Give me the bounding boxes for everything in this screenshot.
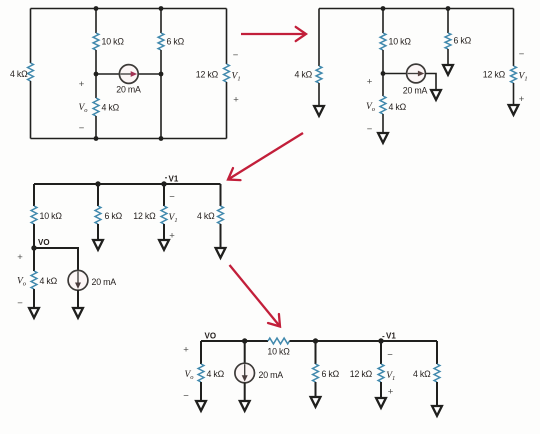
svg-text:4 kΩ: 4 kΩ: [294, 70, 312, 80]
wire Vo 4k lower circuit 2: [382, 114, 384, 133]
svg-text:6 kΩ: 6 kΩ: [322, 369, 340, 379]
label V1 circuit 1: [232, 72, 241, 83]
label minus of V1 circuit 3: [169, 192, 175, 203]
wire 6k branch lower circuit 2: [447, 49, 449, 65]
wire 4k right lower circuit 3: [220, 224, 222, 248]
node dot mid circuit 2: [381, 71, 386, 76]
wire 12k branch lower circuit 2: [513, 83, 515, 105]
wire 10k branch lower circuit 2: [382, 50, 384, 74]
ground of 6k circuit 3: [93, 240, 103, 250]
label 12 kohm circuit 4: [350, 369, 373, 379]
node dot 12k circuit 3: [161, 181, 166, 186]
wire 4k left upper circuit 4: [200, 341, 202, 364]
label plus of Vo circuit 2: [367, 77, 373, 88]
ground of 4k circuit 3: [29, 308, 39, 318]
label V1 node circuit 4: [386, 332, 396, 341]
resistor R 4k circuit 3: [31, 271, 37, 289]
red arrow circuit2 to circuit3: [228, 133, 303, 180]
label V1 circuit 3: [169, 213, 178, 224]
svg-text:10 kΩ: 10 kΩ: [389, 37, 412, 47]
label 20 mA circuit 2: [403, 86, 428, 96]
wire 12k branch upper circuit 2: [513, 9, 515, 67]
label minus of Vo circuit 3: [17, 298, 23, 309]
label 4 kohm mid circuit 1: [102, 103, 120, 113]
node dot bottom left circuit 1: [94, 136, 99, 141]
svg-text:20 mA: 20 mA: [92, 277, 117, 287]
ground of 12k circuit 4: [376, 398, 386, 408]
tick before V1 label circuit 4: [382, 336, 384, 338]
node dot top 6k circuit 2: [446, 6, 451, 11]
wire 6k branch upper circuit 2: [447, 9, 449, 34]
wire 6k lower circuit 3: [97, 224, 99, 240]
wire left side of circuit 1 upper: [30, 9, 32, 64]
resistor R 4k right circuit 4: [434, 364, 440, 382]
node dot top 10k circuit 2: [381, 6, 386, 11]
ground of 6k circuit 2: [443, 65, 453, 75]
ground of 12k circuit 2: [509, 105, 519, 115]
svg-text:−: −: [519, 49, 525, 60]
label 10 kohm circuit 3: [40, 211, 63, 221]
resistor R 10k horizontal circuit 4: [268, 338, 290, 344]
label 4 kohm right circuit 4: [413, 369, 431, 379]
node dot top of 10k circuit 1: [94, 6, 99, 11]
ground of 4k left circuit 4: [196, 401, 206, 411]
label 10 kohm circuit 4: [267, 347, 290, 357]
wire 4k left lower circuit 4: [200, 382, 202, 401]
label 6 kohm circuit 3: [105, 211, 123, 221]
svg-text:20 mA: 20 mA: [259, 370, 284, 380]
wire bottom of circuit 1: [31, 138, 227, 140]
wire branch 4k mid lower circuit 1: [95, 116, 97, 139]
wire branch 10k upper circuit 1: [95, 9, 97, 34]
svg-text:4 kΩ: 4 kΩ: [207, 369, 225, 379]
red arrow circuit1 to circuit2: [241, 27, 306, 41]
label Vo circuit 4: [184, 370, 194, 381]
label plus of V1 circuit 1: [233, 95, 239, 106]
svg-text:−: −: [169, 192, 175, 203]
resistor R 6k circuit 3: [95, 206, 101, 224]
svg-text:20 mA: 20 mA: [403, 86, 428, 96]
svg-text:12 kΩ: 12 kΩ: [196, 70, 219, 80]
label minus of Vo circuit 4: [183, 391, 189, 402]
wire Vo 4k lower circuit 3: [33, 289, 35, 308]
label 4 kohm right circuit 3: [197, 211, 215, 221]
svg-text:−: −: [79, 123, 85, 134]
label V1 circuit 4: [386, 371, 395, 382]
svg-text:+: +: [367, 77, 373, 88]
wire to current source circuit 2: [383, 73, 407, 75]
svg-text:−: −: [233, 50, 239, 61]
label 12 kohm circuit 2: [483, 70, 506, 80]
svg-text:4 kΩ: 4 kΩ: [10, 69, 28, 79]
ground of 4k circuit 2: [314, 106, 324, 116]
label VO circuit 3: [38, 238, 50, 247]
label 20 mA circuit 1: [116, 85, 141, 95]
label minus of V1 circuit 2: [519, 49, 525, 60]
node dot bottom right circuit 1: [159, 136, 164, 141]
wire 10k upper circuit 3: [33, 184, 35, 206]
node dot 12k circuit 4: [378, 338, 383, 343]
label VO circuit 4: [205, 332, 217, 341]
wire left side of circuit 1 lower: [30, 81, 32, 139]
svg-text:−: −: [387, 350, 393, 361]
red arrow circuit3 to circuit4: [230, 265, 281, 327]
label plus of V1 circuit 2: [519, 94, 525, 105]
ground of Vo branch circuit 2: [378, 133, 388, 143]
resistor R 12k circuit 3: [161, 206, 167, 224]
label 4 kohm circuit 2: [294, 70, 312, 80]
svg-text:4 kΩ: 4 kΩ: [413, 369, 431, 379]
svg-text:−: −: [367, 124, 373, 135]
wire Vo 4k upper circuit 2: [382, 74, 384, 97]
resistor R 10k circuit 2: [380, 33, 386, 50]
label plus of Vo circuit 4: [183, 345, 189, 356]
label 6 kohm circuit 1: [167, 37, 185, 47]
svg-text:6 kΩ: 6 kΩ: [454, 36, 472, 46]
label Vo circuit 1: [78, 103, 88, 114]
resistor R 4k right circuit 3: [218, 206, 224, 224]
label 4 kohm mid circuit 2: [389, 102, 407, 112]
wire source lower circuit 4: [244, 383, 246, 401]
node dot source circuit 4: [242, 338, 247, 343]
wire branch 10k lower circuit 1: [95, 50, 97, 74]
resistor R 6k circuit 1: [158, 33, 164, 50]
current source 20mA circuit 4: [235, 363, 255, 383]
label 20 mA circuit 4: [259, 370, 284, 380]
svg-text:20 mA: 20 mA: [116, 85, 141, 95]
wire node VO to source circuit 3: [34, 248, 78, 271]
svg-text:VO: VO: [205, 332, 217, 341]
wire 10k branch upper circuit 2: [382, 9, 384, 34]
ground of 6k circuit 4: [311, 397, 321, 407]
wire top of circuit 3: [34, 183, 221, 185]
wire top left segment circuit 4: [201, 340, 268, 342]
resistor R 4k circuit 2: [316, 66, 322, 83]
wire current source to corner circuit 2: [425, 74, 436, 91]
svg-text:12 kΩ: 12 kΩ: [350, 369, 373, 379]
wire branch 6k lower circuit 1: [160, 50, 162, 139]
label plus of Vo circuit 3: [17, 252, 23, 263]
ground of source circuit 4: [240, 401, 250, 411]
node dot 6k circuit 4: [313, 338, 318, 343]
svg-text:VO: VO: [38, 238, 50, 247]
node dot 6k circuit 3: [95, 181, 100, 186]
svg-text:10 kΩ: 10 kΩ: [102, 37, 125, 47]
resistor R 12k circuit 4: [378, 364, 384, 382]
wire 4k right upper circuit 4: [436, 341, 438, 364]
resistor R 12k of circuit 1: [224, 64, 230, 82]
ground of source circuit 3: [73, 308, 83, 318]
label plus of V1 circuit 4: [388, 387, 394, 398]
wire 12k lower circuit 4: [380, 382, 382, 398]
wire source upper circuit 4: [244, 341, 246, 363]
node dot top of 6k circuit 1: [159, 6, 164, 11]
ground of current source circuit 2: [431, 90, 441, 100]
ground of 4k right circuit 3: [216, 248, 226, 258]
label minus of Vo circuit 1: [79, 123, 85, 134]
wire branch 6k upper circuit 1: [160, 9, 162, 34]
node dot mid right circuit 1: [159, 72, 164, 77]
label 12 kohm circuit 1: [196, 70, 219, 80]
node dot mid left circuit 1: [94, 72, 99, 77]
svg-text:12 kΩ: 12 kΩ: [483, 70, 506, 80]
resistor R 4k left of circuit 1: [28, 63, 34, 81]
svg-text:V1: V1: [169, 175, 179, 184]
svg-text:+: +: [519, 94, 525, 105]
label minus of V1 circuit 4: [387, 350, 393, 361]
label minus of Vo circuit 2: [367, 124, 373, 135]
current source 20mA circuit 1: [119, 65, 138, 84]
ground of 4k right circuit 4: [432, 406, 442, 416]
label Vo circuit 3: [17, 277, 27, 288]
resistor R 12k circuit 2: [511, 66, 517, 83]
label 6 kohm circuit 4: [322, 369, 340, 379]
svg-text:+: +: [233, 95, 239, 106]
label 10 kohm circuit 2: [389, 37, 412, 47]
label V1 node circuit 3: [169, 175, 179, 184]
wire 6k upper circuit 3: [97, 184, 99, 206]
label minus of V1 circuit 1: [233, 50, 239, 61]
label 4 kohm circuit 3: [40, 276, 58, 286]
wire 4k right upper circuit 3: [220, 184, 222, 206]
svg-text:6 kΩ: 6 kΩ: [105, 211, 123, 221]
svg-text:4 kΩ: 4 kΩ: [197, 211, 215, 221]
svg-text:+: +: [183, 345, 189, 356]
wire 4k branch lower circuit 2: [318, 83, 320, 106]
ground of 12k circuit 3: [159, 240, 169, 250]
wire top of circuit 1: [31, 8, 227, 10]
resistor R 6k circuit 4: [313, 364, 319, 382]
svg-text:+: +: [79, 79, 85, 90]
resistor R 10k circuit 3: [31, 206, 37, 224]
label plus of V1 circuit 3: [169, 231, 175, 242]
wire Vo 4k upper circuit 3: [33, 248, 35, 271]
wire top mid segment circuit 4: [290, 340, 438, 342]
wire 6k upper circuit 4: [315, 341, 317, 364]
resistor R 10k circuit 1: [93, 33, 99, 50]
resistor R 6k circuit 2: [445, 33, 451, 49]
wire 12k upper circuit 4: [380, 341, 382, 364]
label Vo circuit 2: [366, 102, 376, 113]
wire branch 4k mid upper circuit 1: [95, 74, 97, 98]
label plus of Vo circuit 1: [79, 79, 85, 90]
svg-text:10 kΩ: 10 kΩ: [40, 211, 63, 221]
svg-text:6 kΩ: 6 kΩ: [167, 37, 185, 47]
label 12 kohm circuit 3: [133, 211, 156, 221]
tick before V1 label circuit 3: [165, 177, 167, 179]
svg-text:−: −: [183, 391, 189, 402]
wire 6k lower circuit 4: [315, 382, 317, 397]
wire source to ground circuit 3: [77, 290, 79, 308]
label 6 kohm circuit 2: [454, 36, 472, 46]
svg-text:4 kΩ: 4 kΩ: [102, 103, 120, 113]
current source 20mA circuit 2: [407, 64, 426, 83]
wire 12k upper circuit 3: [163, 184, 165, 206]
wire 12k lower circuit 3: [163, 224, 165, 240]
resistor R 4k mid circuit 2: [380, 96, 386, 114]
resistor R 4k left circuit 4: [198, 364, 204, 382]
svg-text:V1: V1: [386, 332, 396, 341]
svg-text:−: −: [17, 298, 23, 309]
resistor R 4k mid circuit 1: [93, 98, 99, 116]
svg-text:+: +: [17, 252, 23, 263]
wire 4k branch upper circuit 2: [318, 9, 320, 67]
wire right side of circuit 1 upper: [226, 9, 228, 65]
label 10 kohm circuit 1: [102, 37, 125, 47]
svg-text:4 kΩ: 4 kΩ: [40, 276, 58, 286]
wire right side of circuit 1 lower: [226, 82, 228, 139]
label 4 kohm left circuit 4: [207, 369, 225, 379]
wire current source left circuit 1: [96, 73, 119, 75]
node VO dot circuit 3: [31, 245, 36, 250]
wire top of circuit 2: [319, 8, 514, 10]
svg-text:10 kΩ: 10 kΩ: [267, 347, 290, 357]
svg-text:12 kΩ: 12 kΩ: [133, 211, 156, 221]
svg-text:4 kΩ: 4 kΩ: [389, 102, 407, 112]
wire 4k right lower circuit 4: [436, 382, 438, 406]
wire 10k to node VO circuit 3: [33, 224, 35, 248]
svg-text:+: +: [388, 387, 394, 398]
label 20 mA circuit 3: [92, 277, 117, 287]
label 4 kohm left circuit 1: [10, 69, 28, 79]
wire current source right circuit 1: [138, 73, 161, 75]
current source 20mA circuit 3: [68, 270, 88, 290]
label V1 circuit 2: [519, 72, 528, 83]
